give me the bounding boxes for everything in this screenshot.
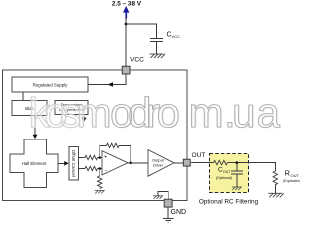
ground (GND pin) [163, 218, 173, 222]
wire VCC pin to regulated supply [88, 74, 126, 84]
op-amp U1 [102, 151, 128, 175]
svg-text:OUT: OUT [291, 173, 300, 178]
arrowhead temp comp [82, 118, 87, 123]
supply arrow [123, 6, 129, 19]
block Regulated Supply [12, 77, 88, 92]
svg-text:+: + [104, 155, 107, 161]
wire offset to resistor bottom [79, 168, 86, 170]
svg-text:Optional RC Filtering: Optional RC Filtering [199, 199, 259, 206]
arrowhead into hall element [33, 135, 38, 140]
wire capacitor to ground [236, 174, 238, 187]
arrowhead into offset cancel [64, 161, 69, 166]
pin GND [164, 199, 172, 207]
wire resistor to op-amp - [98, 168, 103, 170]
wire driver to OUT pin [174, 162, 184, 164]
wire R_OUT to ground [274, 185, 276, 194]
svg-text:−: − [105, 168, 108, 174]
pin OUT [183, 159, 190, 166]
node top input [98, 156, 101, 159]
resistor R_OUT [273, 171, 277, 185]
wire resistor to op-amp + [98, 157, 103, 159]
arrowhead into regulated supply [108, 82, 114, 87]
ground (COUT) [232, 187, 242, 190]
watermark kosmodrom.ua [29, 89, 282, 137]
wire op-amp to output driver [128, 162, 148, 164]
label COUT [218, 167, 231, 175]
label CVCC [167, 32, 181, 40]
RC filter box (yellow) [210, 154, 249, 193]
svg-text:OUT: OUT [192, 152, 206, 159]
node bottom input [98, 167, 101, 170]
label R_OUT [285, 169, 300, 179]
pin VCC [122, 66, 130, 74]
IC boundary [3, 70, 188, 201]
svg-text:(Equivalent): (Equivalent) [283, 179, 300, 183]
svg-text:VCC: VCC [172, 34, 181, 39]
ground (internal) [153, 196, 163, 199]
wire GND pin to ground [167, 207, 169, 218]
feedback wire up [100, 145, 107, 157]
wire regulated supply to bias [22, 92, 24, 101]
node filter [235, 161, 238, 164]
svg-text:VCC: VCC [130, 56, 144, 63]
output driver [148, 150, 174, 177]
feedback resistor [107, 143, 120, 147]
node junction at VCC/CVCC [125, 23, 128, 26]
svg-text:OUT: OUT [223, 170, 231, 174]
wire VCC vertical [125, 19, 127, 67]
svg-text:2.5 – 38 V: 2.5 – 38 V [112, 1, 142, 8]
node output [129, 162, 132, 165]
svg-text:kosmodrom.ua: kosmodrom.ua [29, 89, 281, 136]
wire temperature compensation down [83, 114, 85, 119]
capacitor COUT [231, 171, 243, 174]
block Offset Cancel [69, 146, 79, 180]
svg-text:Regulated Supply: Regulated Supply [33, 82, 68, 87]
wire bias to hall element [34, 116, 36, 136]
wire hall to offset cancel [58, 162, 65, 164]
hall element [10, 139, 58, 187]
internal ground net to GND pin [158, 191, 168, 199]
ground (CVCC) [150, 54, 166, 58]
wire offset to resistor top [79, 157, 86, 159]
wire to CVCC [126, 24, 157, 38]
wire node to capacitor [236, 163, 238, 171]
wire OUT to filter resistor [191, 162, 214, 164]
svg-text:Hall Element: Hall Element [22, 161, 47, 166]
svg-text:Offset Cancel: Offset Cancel [71, 150, 76, 177]
feedback wire down to output [119, 145, 131, 162]
capacitor CVCC [150, 39, 163, 42]
resistor to ground [98, 176, 102, 189]
block Temperature Compensation [55, 101, 88, 115]
wire resistor to R_OUT [227, 163, 275, 171]
svg-text:(Optional): (Optional) [216, 176, 232, 180]
ground (op-amp) [95, 191, 105, 194]
svg-text:GND: GND [171, 209, 187, 216]
filter resistor [214, 160, 228, 164]
resistor input bottom [85, 166, 98, 170]
ground (R_OUT) [268, 193, 284, 197]
wire minus input to ground resistor [99, 169, 101, 177]
svg-text:Driver: Driver [153, 163, 164, 168]
resistor input top [85, 155, 98, 159]
wire CVCC to ground [156, 42, 158, 54]
block Bias [12, 101, 47, 116]
